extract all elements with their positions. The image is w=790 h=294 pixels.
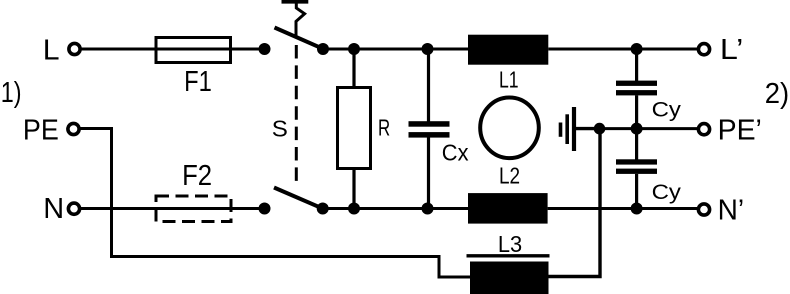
terminal L (69, 43, 80, 54)
wire N to switch (81, 207, 264, 210)
fuse F2 dashed (156, 196, 231, 222)
switch S pole 2 blade (274, 188, 323, 209)
fuse F1 (156, 38, 231, 63)
junction dot chassis node (594, 123, 606, 135)
junction dot F1 output (259, 43, 271, 55)
wire chassis node to PE' (600, 127, 699, 130)
svg-text:L3: L3 (498, 231, 522, 257)
switch S actuator zigzag (296, 3, 305, 38)
wire L2 to terminal N' (548, 207, 698, 210)
junction dot Cy top (631, 43, 643, 55)
junction dot F2 output (259, 203, 271, 215)
svg-text:L1: L1 (499, 66, 519, 92)
svg-text:Cy: Cy (652, 98, 682, 122)
capacitor Cy lower (616, 129, 657, 209)
junction dot PE'-Cy (631, 123, 643, 135)
junction dot R bottom (348, 203, 360, 215)
chassis ground symbol (561, 107, 600, 151)
svg-text:N: N (43, 193, 64, 225)
switch S pole 1 blade (275, 28, 324, 49)
terminal PE' (698, 124, 709, 135)
junction dot switch output L (317, 43, 329, 55)
wire L input to switch (80, 48, 264, 51)
junction dot R top (348, 43, 360, 55)
resistor R (338, 49, 371, 209)
junction dot Cx top (422, 43, 434, 55)
svg-text:L’: L’ (720, 34, 743, 66)
inductor L2 (468, 193, 548, 224)
junction dot Cy bottom (631, 203, 643, 215)
switch S linkage dashed line (295, 45, 298, 182)
svg-text:PE’: PE’ (718, 114, 762, 146)
svg-text:L: L (43, 34, 60, 66)
svg-text:N’: N’ (718, 194, 745, 226)
svg-text:S: S (272, 116, 288, 142)
terminal N' (698, 204, 709, 215)
wire PE to L3 (81, 129, 471, 278)
capacitor Cx (409, 49, 450, 209)
svg-text:PE: PE (23, 114, 59, 146)
terminal L' (698, 44, 709, 55)
wire L1 to terminal L' (548, 48, 698, 51)
svg-text:R: R (378, 114, 390, 140)
svg-text:2): 2) (765, 78, 789, 110)
inductor L3 core line (467, 254, 550, 257)
svg-text:1): 1) (1, 77, 22, 109)
switch S actuator bar (282, 0, 309, 4)
svg-text:Cx: Cx (442, 140, 469, 166)
capacitor Cy upper (616, 49, 657, 129)
wire L3 to chassis node (548, 130, 600, 277)
svg-text:F2: F2 (182, 160, 212, 192)
wire switch to L2 (323, 207, 468, 210)
wire switch to L1 (323, 48, 468, 51)
svg-text:F1: F1 (184, 66, 212, 98)
inductor L1 (468, 35, 548, 65)
svg-text:L2: L2 (499, 163, 520, 189)
terminal N (68, 203, 79, 214)
terminal PE (68, 123, 79, 134)
inductor L3 (470, 262, 549, 294)
junction dot switch output N (317, 203, 329, 215)
choke core circle (480, 98, 539, 159)
junction dot Cx bottom (422, 203, 434, 215)
svg-text:Cy: Cy (652, 180, 682, 204)
